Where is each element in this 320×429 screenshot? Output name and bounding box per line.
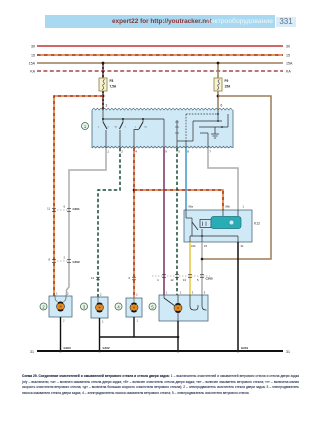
svg-text:15: 15 — [31, 54, 35, 58]
node motor ground junction — [177, 336, 180, 339]
pump motor 4 box — [126, 293, 142, 317]
svg-text:F8: F8 — [110, 79, 114, 83]
svg-text:2: 2 — [63, 318, 65, 322]
label circled 5 — [149, 303, 156, 310]
svg-text:15: 15 — [286, 54, 290, 58]
wire motor 2 ground — [61, 317, 66, 351]
unit switch c — [134, 119, 148, 148]
svg-text:31b: 31b — [191, 244, 196, 248]
wire orange pin4 to pump motor — [128, 148, 136, 298]
svg-text:G102: G102 — [103, 346, 110, 350]
wire orange-red branch to left drop — [54, 96, 103, 296]
svg-text:G403: G403 — [64, 346, 71, 350]
wire orange branch to relay — [134, 190, 223, 210]
wire grey pin7 to relay — [208, 148, 238, 210]
svg-text:12: 12 — [170, 278, 174, 282]
unit internal ground — [211, 127, 219, 138]
fuse F8 — [99, 78, 117, 91]
svg-text:31: 31 — [286, 350, 290, 354]
svg-text:13: 13 — [183, 278, 187, 282]
label circled 2 — [40, 303, 47, 310]
ground bus 31 — [30, 350, 290, 354]
svg-text:F9: F9 — [225, 79, 229, 83]
node fuse F9 top — [217, 62, 220, 65]
pump motor 3 box — [91, 293, 108, 318]
connector C402 — [48, 255, 80, 263]
svg-text:1: 1 — [243, 205, 245, 209]
svg-text:15A: 15A — [286, 62, 293, 66]
caption — [22, 374, 299, 405]
header bar — [45, 15, 275, 28]
svg-text:2: 2 — [136, 293, 138, 297]
svg-text:31: 31 — [30, 350, 34, 354]
svg-text:5: 5 — [178, 150, 180, 154]
bus KA — [30, 70, 291, 74]
relay K12 internals — [186, 210, 241, 242]
svg-text:1: 1 — [107, 150, 109, 154]
wire blue pin8 to relay — [185, 148, 187, 210]
svg-text:9: 9 — [165, 150, 167, 154]
fuse F9 — [214, 78, 231, 91]
label circled 4 — [115, 303, 122, 310]
node fuse F9 bottom junction — [217, 95, 220, 98]
svg-text:30: 30 — [31, 45, 35, 49]
label circled 3 — [81, 303, 88, 310]
svg-text:5: 5 — [204, 291, 206, 295]
wire motor 5 ground — [177, 321, 179, 351]
motor 2 symbol — [55, 295, 66, 311]
wire brown right drop — [203, 96, 271, 259]
svg-text:7,5A: 7,5A — [110, 85, 117, 89]
svg-text:4: 4 — [157, 278, 159, 282]
wire fuse F9 feed — [217, 63, 219, 110]
motor 3 symbol — [96, 297, 104, 312]
unit bottom pin labels — [107, 150, 211, 154]
wire purple pin9 to wiper motor — [163, 148, 165, 296]
wire black relay 31 to ground — [237, 242, 239, 351]
header page number 331 — [276, 17, 296, 27]
wire motor 3 ground — [100, 318, 105, 351]
svg-text:30: 30 — [286, 45, 290, 49]
svg-text:8: 8 — [187, 150, 189, 154]
svg-text:86a: 86a — [189, 205, 194, 209]
svg-text:KA: KA — [286, 70, 291, 74]
svg-text:C205: C205 — [206, 276, 214, 280]
svg-text:1: 1 — [137, 318, 139, 322]
unit internal feed rail — [102, 110, 164, 120]
svg-text:C402: C402 — [73, 260, 81, 264]
bus 15A — [29, 62, 293, 66]
svg-text:7: 7 — [209, 150, 211, 154]
wire green pin2 to pump motor — [91, 148, 120, 298]
svg-text:5: 5 — [197, 278, 199, 282]
svg-text:3: 3 — [106, 104, 108, 108]
unit internal right network — [164, 110, 228, 148]
wire green pin5 to wiper motor — [176, 148, 178, 296]
wire motor 4 ground — [100, 317, 179, 337]
svg-text:1: 1 — [166, 291, 168, 295]
connector C201 — [47, 204, 80, 211]
svg-text:KA: KA — [30, 70, 35, 74]
svg-text:2: 2 — [67, 292, 69, 296]
unit label circled 1 — [82, 123, 89, 130]
motor 4 symbol — [130, 298, 138, 312]
connector C205 — [152, 275, 213, 283]
node fuse F8 bottom junction — [102, 95, 105, 98]
svg-text:3: 3 — [192, 291, 194, 295]
svg-text:15A: 15A — [225, 85, 232, 89]
wire yellow relay 31b to wiper motor — [189, 242, 191, 296]
svg-text:15: 15 — [204, 244, 207, 248]
svg-text:2: 2 — [100, 293, 102, 297]
switch unit body — [92, 108, 233, 148]
svg-text:6: 6 — [221, 104, 223, 108]
bus 30 — [31, 45, 290, 49]
svg-text:14: 14 — [91, 276, 95, 280]
svg-text:2: 2 — [121, 150, 123, 154]
svg-text:8: 8 — [48, 257, 50, 261]
header watermark url — [112, 16, 222, 27]
svg-text:2: 2 — [63, 255, 65, 259]
node pin4 branch — [133, 189, 136, 192]
node fuse F8 top — [102, 62, 105, 65]
unit switch b — [115, 119, 127, 148]
wire fuse F8 feed — [102, 63, 104, 110]
wire grey relay 15 to wiper motor — [201, 242, 203, 296]
svg-text:K12: K12 — [254, 222, 260, 226]
svg-text:2: 2 — [180, 291, 182, 295]
svg-text:86b: 86b — [226, 205, 231, 209]
svg-text:6: 6 — [63, 204, 65, 208]
svg-text:4: 4 — [135, 150, 137, 154]
header title — [180, 16, 273, 27]
washer motor 2 box — [49, 292, 72, 317]
wiper motor 5 box — [159, 291, 208, 321]
node grey-brown junction — [201, 258, 204, 261]
svg-text:6: 6 — [128, 276, 130, 280]
bus 15 — [31, 54, 290, 58]
wire grey pin1 to washer motor — [67, 148, 107, 295]
svg-text:1: 1 — [56, 292, 58, 296]
svg-text:11: 11 — [47, 206, 50, 210]
motor 5 symbol — [164, 295, 207, 321]
svg-text:31: 31 — [241, 244, 244, 248]
svg-text:1: 1 — [102, 319, 104, 323]
svg-text:G201: G201 — [241, 346, 248, 350]
svg-text:C201: C201 — [73, 207, 81, 211]
svg-text:15A: 15A — [29, 62, 36, 66]
unit switch a — [98, 119, 110, 148]
relay K12 — [184, 205, 260, 248]
